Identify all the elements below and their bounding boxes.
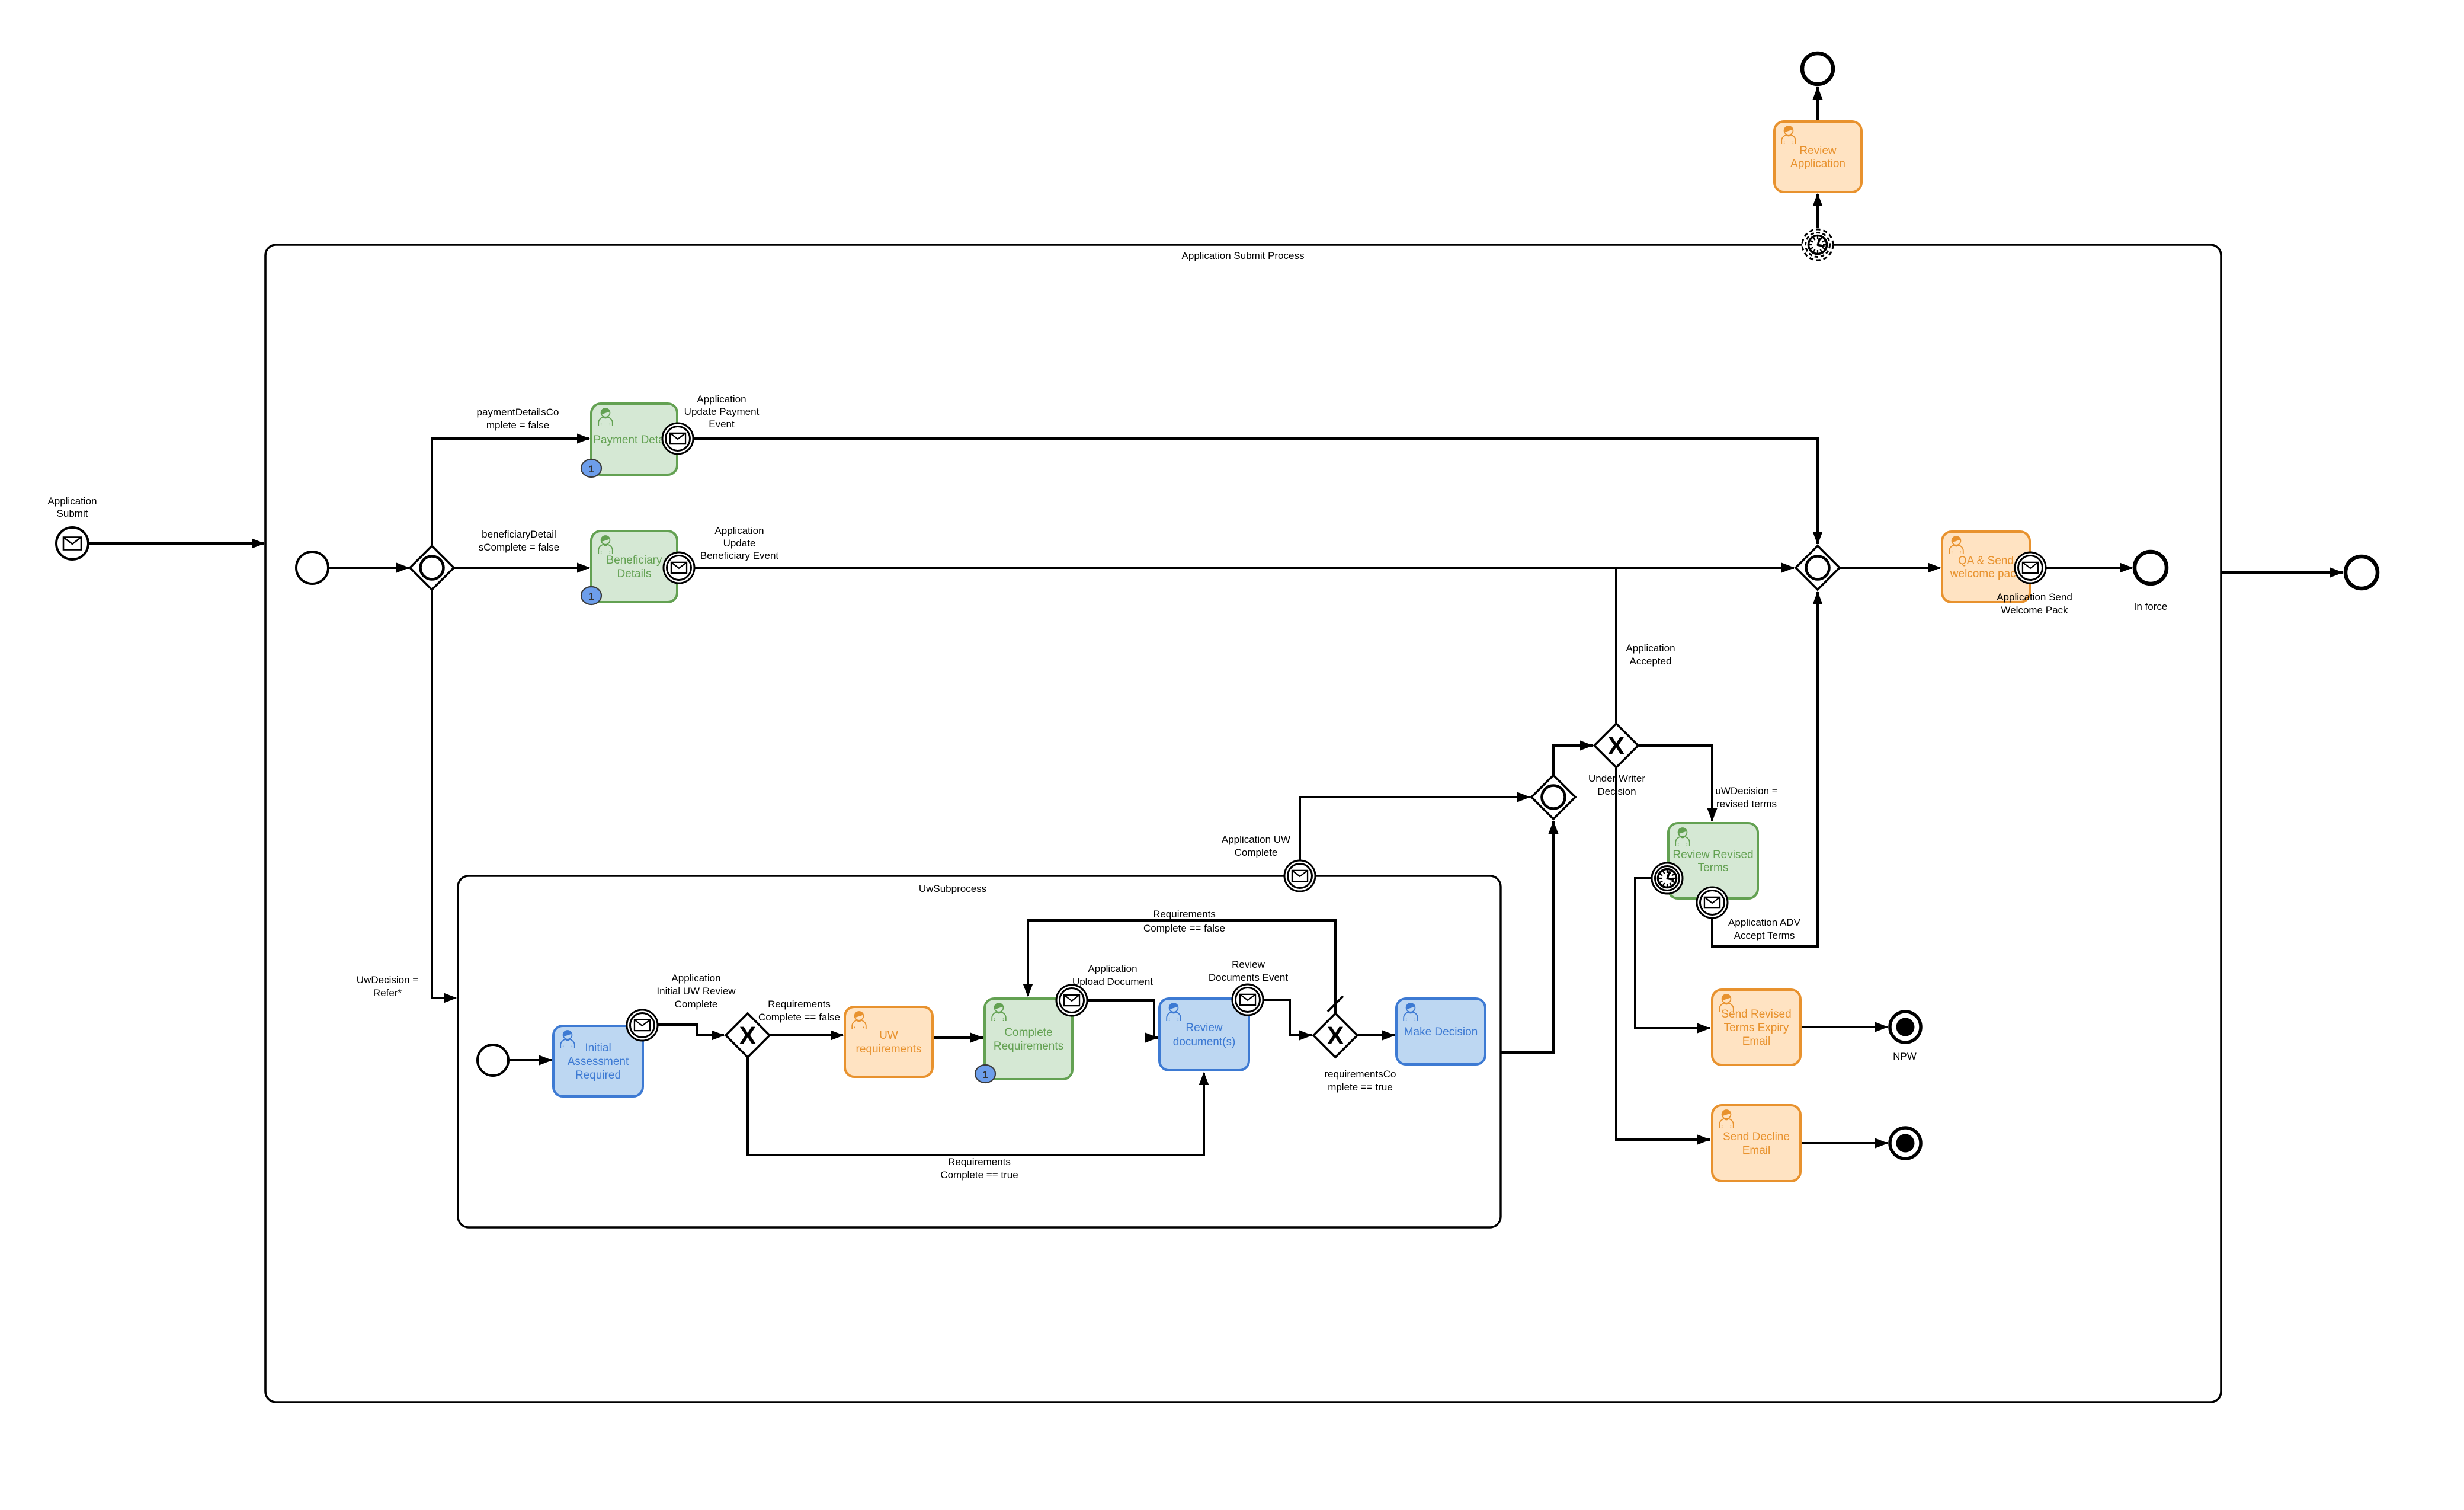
wire CR boundary to Review documents: [1088, 1000, 1158, 1038]
wire X sub1 down loop to Review documents: [748, 1057, 1204, 1155]
svg-text:Review: Review: [1185, 1022, 1223, 1034]
svg-text:QA & Send: QA & Send: [1958, 555, 2014, 567]
svg-text:Application: Application: [697, 394, 746, 405]
message boundary event on Payment Details: [662, 423, 693, 454]
message boundary event on Complete Requirements: [1056, 985, 1087, 1016]
label paymentDetailsComplete = false: [477, 407, 559, 431]
svg-text:Refer*: Refer*: [373, 987, 402, 999]
svg-text:Beneficiary: Beneficiary: [607, 554, 662, 567]
svg-text:1: 1: [588, 591, 594, 602]
wire container to final end: [2221, 571, 2343, 574]
svg-text:Update: Update: [723, 538, 756, 549]
task Review document(s): [1159, 999, 1249, 1070]
svg-text:Email: Email: [1742, 1035, 1771, 1048]
svg-text:beneficiaryDetail: beneficiaryDetail: [482, 529, 556, 540]
svg-text:Application Send: Application Send: [1997, 591, 2072, 603]
container Application Submit Process: [265, 245, 2221, 1402]
svg-text:requirementsCo: requirementsCo: [1325, 1068, 1396, 1080]
wire Review Revised timer to Send Revised: [1635, 878, 1710, 1028]
start event subprocess: [478, 1045, 508, 1076]
wire gateway3 to X gateway UnderWriter: [1553, 746, 1593, 775]
message boundary event on Beneficiary Details: [664, 552, 694, 583]
end event top right: [1802, 53, 1833, 84]
wire sub start to Initial Assessment: [509, 1059, 552, 1061]
wire UwSubprocess exit to gateway3 bottom: [1501, 821, 1553, 1052]
label Application Submit: [47, 495, 97, 519]
default flow slash: [1328, 996, 1343, 1012]
svg-text:Update Payment: Update Payment: [684, 406, 760, 417]
svg-text:Required: Required: [575, 1069, 621, 1082]
svg-text:Review: Review: [1232, 959, 1265, 970]
task Complete Requirements: [985, 999, 1072, 1079]
svg-text:UW: UW: [879, 1029, 898, 1042]
wire IA boundary to X gateway sub1: [658, 1025, 724, 1035]
label Application Upload Document: [1072, 963, 1153, 987]
svg-text:Application UW: Application UW: [1222, 834, 1290, 845]
svg-text:Requirements: Requirements: [994, 1040, 1063, 1052]
svg-text:document(s): document(s): [1173, 1036, 1236, 1048]
svg-text:Submit: Submit: [57, 508, 88, 519]
wire Review Revised msg to gateway2 bottom: [1712, 592, 1818, 946]
wire start to gateway1: [329, 567, 409, 569]
event-based gateway 3: [1531, 775, 1575, 819]
svg-text:1: 1: [982, 1069, 988, 1080]
svg-text:UwDecision =: UwDecision =: [357, 974, 418, 986]
message boundary event on Review Revised Terms: [1697, 887, 1728, 918]
svg-text:Requirements: Requirements: [948, 1156, 1011, 1167]
svg-text:Complete == false: Complete == false: [758, 1012, 840, 1023]
svg-text:mplete == true: mplete == true: [1328, 1082, 1393, 1093]
svg-text:Complete: Complete: [675, 999, 718, 1010]
svg-text:Application Submit Process: Application Submit Process: [1182, 250, 1305, 261]
wire Review Application to end event: [1816, 87, 1819, 121]
wire Send Decline to terminate: [1800, 1142, 1888, 1144]
wire Payment boundary to gateway2 top: [693, 439, 1818, 544]
svg-text:Make Decision: Make Decision: [1404, 1026, 1478, 1038]
svg-text:sComplete = false: sComplete = false: [479, 542, 560, 553]
end event final outer: [2346, 556, 2378, 588]
end event In force: [2135, 552, 2167, 584]
svg-text:Accept Terms: Accept Terms: [1734, 930, 1795, 941]
wire Application Submit to container: [89, 542, 264, 545]
wire gateway1 right to Beneficiary Details: [454, 567, 589, 569]
svg-text:Send Revised: Send Revised: [1721, 1008, 1791, 1020]
wire UW requirements to Complete Requirements: [933, 1036, 983, 1039]
svg-text:Application: Application: [1790, 158, 1845, 170]
svg-text:Under Writer: Under Writer: [1588, 773, 1645, 784]
label UwDecision = Refer*: [357, 974, 418, 999]
start event inner: [296, 552, 328, 584]
svg-text:Send Decline: Send Decline: [1723, 1131, 1790, 1143]
task UW requirements: [845, 1007, 933, 1077]
message boundary event on QA task: [2015, 552, 2046, 583]
task Payment Details: [591, 404, 677, 475]
event-based gateway 1: [410, 546, 454, 590]
wire X sub1 right to UW requirements: [770, 1034, 843, 1036]
svg-text:Documents Event: Documents Event: [1209, 972, 1288, 983]
message boundary event on Initial Assessment: [627, 1010, 658, 1041]
svg-text:Complete: Complete: [1004, 1026, 1052, 1039]
label Requirements Complete == false: [758, 999, 840, 1023]
svg-text:Requirements: Requirements: [768, 999, 831, 1010]
task Make Decision: [1396, 999, 1485, 1064]
task Initial Assessment Required: [553, 1026, 643, 1096]
svg-text:Details: Details: [617, 568, 651, 580]
wire timer to Review Application: [1816, 194, 1819, 228]
task Beneficiary Details: [591, 531, 677, 602]
svg-text:Complete: Complete: [1235, 847, 1278, 858]
svg-text:Assessment: Assessment: [568, 1055, 629, 1068]
svg-text:Beneficiary Event: Beneficiary Event: [700, 550, 779, 561]
message boundary event on Review documents: [1232, 984, 1263, 1015]
wire X sub2 loop to Complete Requirements top: [1028, 920, 1335, 1013]
timer boundary event on Review Revised Terms: [1652, 863, 1683, 894]
wire gateway1 down to UwSubprocess: [432, 590, 456, 998]
svg-text:Application: Application: [1626, 642, 1675, 654]
wire Application Accepted vertical: [1615, 568, 1617, 723]
exclusive gateway sub1: [726, 1013, 770, 1057]
svg-text:NPW: NPW: [1893, 1051, 1917, 1062]
svg-text:Accepted: Accepted: [1630, 655, 1672, 667]
svg-text:In force: In force: [2134, 601, 2168, 612]
terminate end event NPW: [1890, 1012, 1921, 1042]
badge 1 on Payment Details: [581, 459, 601, 477]
badge 1 on Complete Requirements: [975, 1065, 995, 1083]
wire gateway1 up to Payment Details: [432, 439, 589, 545]
exclusive gateway Under Writer Decision: [1594, 724, 1638, 767]
badge 1 on Beneficiary Details: [581, 587, 601, 604]
svg-text:Application: Application: [1088, 963, 1137, 974]
label Application ADV Accept Terms: [1728, 917, 1801, 941]
event-based gateway 2: [1796, 546, 1840, 590]
svg-text:Application: Application: [671, 972, 720, 984]
svg-text:Review Revised: Review Revised: [1672, 849, 1753, 861]
wire X gateway down to Send Decline Email: [1616, 768, 1710, 1140]
svg-text:mplete = false: mplete = false: [486, 420, 549, 431]
svg-text:Application: Application: [47, 495, 97, 507]
svg-text:paymentDetailsCo: paymentDetailsCo: [477, 407, 559, 418]
svg-text:welcome pack: welcome pack: [1950, 568, 2022, 580]
wire RD boundary to X sub2: [1264, 1000, 1312, 1035]
svg-text:Upload Document: Upload Document: [1072, 976, 1153, 987]
svg-text:Initial: Initial: [585, 1042, 611, 1054]
label Application UW Complete: [1222, 834, 1290, 858]
svg-text:Welcome Pack: Welcome Pack: [2001, 604, 2068, 616]
svg-text:Complete == false: Complete == false: [1143, 923, 1225, 934]
svg-text:Application: Application: [714, 525, 764, 536]
svg-text:revised terms: revised terms: [1716, 798, 1777, 810]
wire Beneficiary boundary to gateway2 left: [694, 567, 1794, 569]
timer boundary event non-interrupting on container top: [1802, 229, 1833, 260]
label Application Accepted: [1626, 642, 1675, 667]
svg-text:Terms: Terms: [1698, 862, 1729, 874]
svg-text:Review: Review: [1799, 145, 1837, 157]
svg-text:Event: Event: [709, 418, 735, 430]
wire QA boundary to In force: [2046, 567, 2132, 569]
svg-text:1: 1: [588, 463, 594, 475]
wire Send Revised to NPW: [1800, 1026, 1888, 1028]
subprocess UwSubprocess: [458, 876, 1501, 1227]
svg-text:UwSubprocess: UwSubprocess: [919, 883, 986, 894]
svg-text:requirements: requirements: [856, 1043, 922, 1055]
label Requirements Complete == true: [940, 1156, 1018, 1181]
svg-text:Email: Email: [1742, 1144, 1771, 1157]
task QA &amp; Send welcome pack: [1942, 532, 2030, 602]
label Application Initial UW Review Complete: [656, 972, 736, 1010]
task Review Revised Terms: [1668, 823, 1758, 898]
label beneficiaryDetailsComplete = false: [479, 529, 560, 553]
label Application Update Beneficiary Event: [700, 525, 779, 561]
task Send Revised Terms Expiry Email: [1712, 990, 1800, 1065]
task Send Decline Email: [1712, 1105, 1800, 1181]
task Review Application: [1774, 121, 1861, 192]
svg-text:Terms Expiry: Terms Expiry: [1724, 1022, 1789, 1034]
svg-text:Requirements: Requirements: [1153, 908, 1216, 920]
svg-text:Complete == true: Complete == true: [940, 1169, 1018, 1181]
label uWDecision = revised terms: [1715, 785, 1777, 810]
exclusive gateway sub2: [1313, 1013, 1357, 1057]
label Under Writer Decision: [1588, 773, 1645, 797]
label Application Send Welcome Pack: [1997, 591, 2072, 616]
label requirementsComplete == true: [1325, 1068, 1396, 1093]
svg-text:Application ADV: Application ADV: [1728, 917, 1801, 928]
svg-text:uWDecision =: uWDecision =: [1715, 785, 1777, 796]
message start event Application Submit: [56, 527, 88, 559]
wire UwSubprocess msg boundary to gateway3: [1300, 797, 1530, 866]
message boundary event on UwSubprocess top: [1284, 860, 1315, 891]
label Review Documents Event: [1209, 959, 1288, 983]
wire gateway2 to QA task: [1840, 567, 1940, 569]
wire X sub2 right to Make Decision: [1358, 1034, 1395, 1036]
svg-text:Initial UW Review: Initial UW Review: [656, 986, 736, 997]
terminate end event decline: [1890, 1128, 1921, 1159]
svg-text:Decision: Decision: [1597, 786, 1636, 797]
label Application Update Payment Event: [684, 394, 760, 430]
label Requirements Complete == false loop: [1143, 908, 1225, 934]
wire X gateway right to Review Revised Terms: [1639, 746, 1712, 821]
